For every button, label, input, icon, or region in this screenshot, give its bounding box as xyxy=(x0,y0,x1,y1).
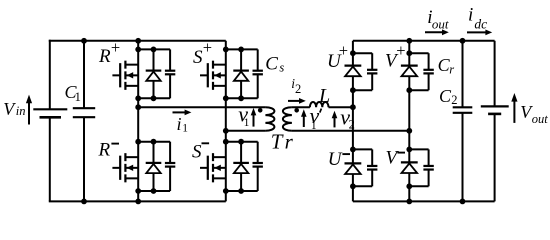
svg-text:r: r xyxy=(449,63,454,77)
label v2 xyxy=(340,104,355,131)
parallel capacitor of U− xyxy=(367,149,377,186)
polarity dot secondary xyxy=(294,108,299,113)
wire: S+ top node bar xyxy=(226,48,258,50)
node: R− bottom-left xyxy=(135,188,141,194)
wire: output branch upper xyxy=(494,41,496,107)
label i_dc xyxy=(468,5,487,32)
svg-text:s: s xyxy=(279,60,284,74)
node: S+ bottom-left xyxy=(223,95,229,101)
svg-text:1: 1 xyxy=(75,90,81,104)
svg-text:+: + xyxy=(111,38,120,57)
node: V− top xyxy=(406,147,412,153)
wire: secondary top to L xyxy=(292,106,310,108)
svg-text:+: + xyxy=(203,38,212,57)
label S+ xyxy=(193,38,212,68)
svg-text:C: C xyxy=(439,86,452,106)
wire: primary bottom stub (S leg to primary) xyxy=(226,130,266,132)
node: V leg mid junction xyxy=(406,128,412,134)
wire: R− top node bar xyxy=(138,141,170,143)
node: S+ bottom diode xyxy=(238,95,244,101)
label Cr xyxy=(438,55,455,76)
svg-text:L: L xyxy=(318,85,330,107)
node: C1 bottom xyxy=(81,199,87,205)
wire: S− top node bar xyxy=(226,141,258,143)
body diode of S+ xyxy=(233,49,249,98)
wire: output branch lower xyxy=(494,114,496,201)
node: R− bottom diode xyxy=(151,188,157,194)
node: V+ bottom xyxy=(406,87,412,93)
wire: R+ bottom node bar xyxy=(138,97,170,99)
label C2 xyxy=(439,86,458,107)
svg-text:in: in xyxy=(16,104,26,118)
wire: V− bottom node bar xyxy=(409,185,428,187)
body diode of R− xyxy=(146,142,162,191)
wire: U− bottom node bar xyxy=(353,185,372,187)
wire: U+ top node bar xyxy=(353,52,372,54)
diode V− xyxy=(401,162,418,173)
svg-text:1: 1 xyxy=(182,123,188,135)
arrow for i_dc (right) xyxy=(467,30,492,36)
wire: C1 branch lower xyxy=(83,117,85,201)
label i_out xyxy=(427,7,449,32)
node: R leg on bottom rail xyxy=(135,199,141,205)
arrow for v1 (up) xyxy=(251,108,257,127)
wire: V leg (full vertical) xyxy=(408,41,410,202)
arrow for V_out (up) xyxy=(511,93,517,123)
svg-text:T: T xyxy=(271,130,284,154)
capacitor C1 xyxy=(73,108,95,117)
body diode of S− xyxy=(233,142,249,191)
capacitor C2 xyxy=(453,107,473,113)
svg-text:i: i xyxy=(177,114,182,134)
wire: R+ top node bar xyxy=(138,48,170,50)
wire: bridge mid rail (R leg to primary) xyxy=(138,106,265,108)
transformer Tr secondary winding xyxy=(283,107,292,131)
svg-text:r: r xyxy=(285,130,294,154)
label R− xyxy=(98,140,120,161)
svg-text:+: + xyxy=(339,41,348,60)
label C1 xyxy=(65,82,81,104)
svg-text:S: S xyxy=(193,47,203,68)
diode U+ xyxy=(345,66,362,77)
svg-text:C: C xyxy=(265,53,278,74)
label V_in xyxy=(3,99,25,119)
wire: R leg (full vertical) xyxy=(137,41,139,202)
svg-text:out: out xyxy=(532,112,549,126)
svg-text:2: 2 xyxy=(295,82,301,96)
node: R+ bottom-left xyxy=(135,95,141,101)
node: U+ bottom xyxy=(350,87,356,93)
label i1 xyxy=(177,114,189,134)
label S− xyxy=(192,142,209,163)
node: S+ top-left xyxy=(223,47,229,53)
inductor L xyxy=(310,102,329,107)
wire: right bottom rail xyxy=(353,200,495,202)
wire: V− top node bar xyxy=(409,148,428,150)
polarity dot primary xyxy=(258,108,263,113)
label L xyxy=(318,85,330,107)
snubber capacitor of S+ xyxy=(253,49,263,98)
label Tr xyxy=(271,130,294,154)
svg-text:1: 1 xyxy=(244,117,250,129)
wire: U− top node bar xyxy=(353,148,372,150)
node: U leg mid junction xyxy=(350,104,356,110)
svg-text:R: R xyxy=(98,140,111,161)
node: U− bottom xyxy=(350,183,356,189)
arrow for i1 (right) xyxy=(173,110,192,116)
node: S− top-left xyxy=(223,139,229,145)
label V+ xyxy=(385,41,406,72)
node: S leg primary junction xyxy=(223,128,229,134)
transistor R+ (MOSFET) xyxy=(112,61,138,90)
diode U− xyxy=(345,163,362,174)
label v1 xyxy=(238,102,249,129)
wire: V+ top node bar xyxy=(409,52,428,54)
wire: C2 branch lower xyxy=(462,113,464,202)
node: U− top xyxy=(350,147,356,153)
arrow for v1prime (up) xyxy=(301,109,307,127)
snubber capacitor of R+ xyxy=(165,49,175,98)
svg-text:dc: dc xyxy=(474,17,487,32)
svg-text:U: U xyxy=(328,149,343,170)
wire: R− bottom node bar xyxy=(138,190,170,192)
label Cs xyxy=(265,53,284,74)
node: R− top diode xyxy=(151,139,157,145)
wire: left bottom rail xyxy=(49,200,226,202)
wire: right top rail xyxy=(353,40,495,42)
node: R leg on top rail xyxy=(135,38,141,44)
wire: C1 branch upper xyxy=(83,41,85,108)
transistor S− (MOSFET) xyxy=(200,153,226,182)
label i2 xyxy=(291,76,301,96)
wire: S+ bottom node bar xyxy=(226,97,258,99)
parallel capacitor of V+ xyxy=(423,53,433,90)
svg-text:+: + xyxy=(396,41,405,60)
transistor R− (MOSFET) xyxy=(112,153,138,182)
transformer Tr primary winding xyxy=(265,107,274,131)
wire: U+ bottom node bar xyxy=(353,89,372,91)
snubber capacitor of S− xyxy=(253,142,263,191)
wire: S leg (full vertical) xyxy=(225,41,227,202)
svg-text:2: 2 xyxy=(451,93,457,107)
wire: left top rail xyxy=(49,40,226,42)
svg-text:S: S xyxy=(192,142,202,163)
wire: left rail lower segment (V_in branch) xyxy=(49,117,51,201)
wire: L to U leg xyxy=(329,106,353,108)
wire: S− bottom node bar xyxy=(226,190,258,192)
label U+ xyxy=(327,41,348,72)
arrow for v2 (up) xyxy=(332,111,338,128)
node: V leg on top rail xyxy=(406,38,412,44)
node: V leg on bottom rail xyxy=(406,199,412,205)
arrow for i_out (right) xyxy=(425,29,449,35)
parallel capacitor of U+ xyxy=(367,53,377,90)
node: C2 bottom xyxy=(460,199,466,205)
node: C2 top xyxy=(460,38,466,44)
node: R− top-left xyxy=(135,139,141,145)
label V− xyxy=(386,147,406,168)
wire: U leg (full vertical) xyxy=(352,41,354,202)
node: R+ top-left xyxy=(135,47,141,53)
label V_out xyxy=(520,102,548,126)
diode V+ xyxy=(401,66,418,77)
wire: C2 branch upper xyxy=(462,41,464,108)
wire: V+ bottom node bar xyxy=(409,89,428,91)
svg-text:i: i xyxy=(468,5,473,26)
node: R+ top diode xyxy=(151,47,157,53)
node: S+ top diode xyxy=(238,47,244,53)
node: U+ top xyxy=(350,50,356,56)
node: S− bottom-left xyxy=(223,188,229,194)
node: S− bottom diode xyxy=(238,188,244,194)
body diode of R+ xyxy=(146,49,162,98)
label U− xyxy=(328,149,350,170)
wire: secondary bottom to V leg xyxy=(292,130,409,132)
node: R leg mid junction xyxy=(135,104,141,110)
svg-text:out: out xyxy=(432,16,449,31)
arrow for i2 (right) xyxy=(288,98,306,104)
node: R+ bottom diode xyxy=(151,95,157,101)
transistor S+ (MOSFET) xyxy=(200,61,226,90)
node: C1 top xyxy=(81,38,87,44)
node: S− top diode xyxy=(238,139,244,145)
voltage source V_in xyxy=(33,109,67,117)
svg-text:R: R xyxy=(98,46,111,67)
label v1prime xyxy=(310,103,322,132)
node: V− bottom xyxy=(406,183,412,189)
snubber capacitor of R− xyxy=(165,142,175,191)
label R+ xyxy=(98,38,120,67)
svg-text:2: 2 xyxy=(349,117,355,131)
arrow for V_in (up) xyxy=(26,95,32,125)
wire: left rail upper segment (V_in branch) xyxy=(49,40,51,109)
node: V+ top xyxy=(406,50,412,56)
voltage source V_out xyxy=(481,106,509,114)
parallel capacitor of V− xyxy=(423,149,433,186)
